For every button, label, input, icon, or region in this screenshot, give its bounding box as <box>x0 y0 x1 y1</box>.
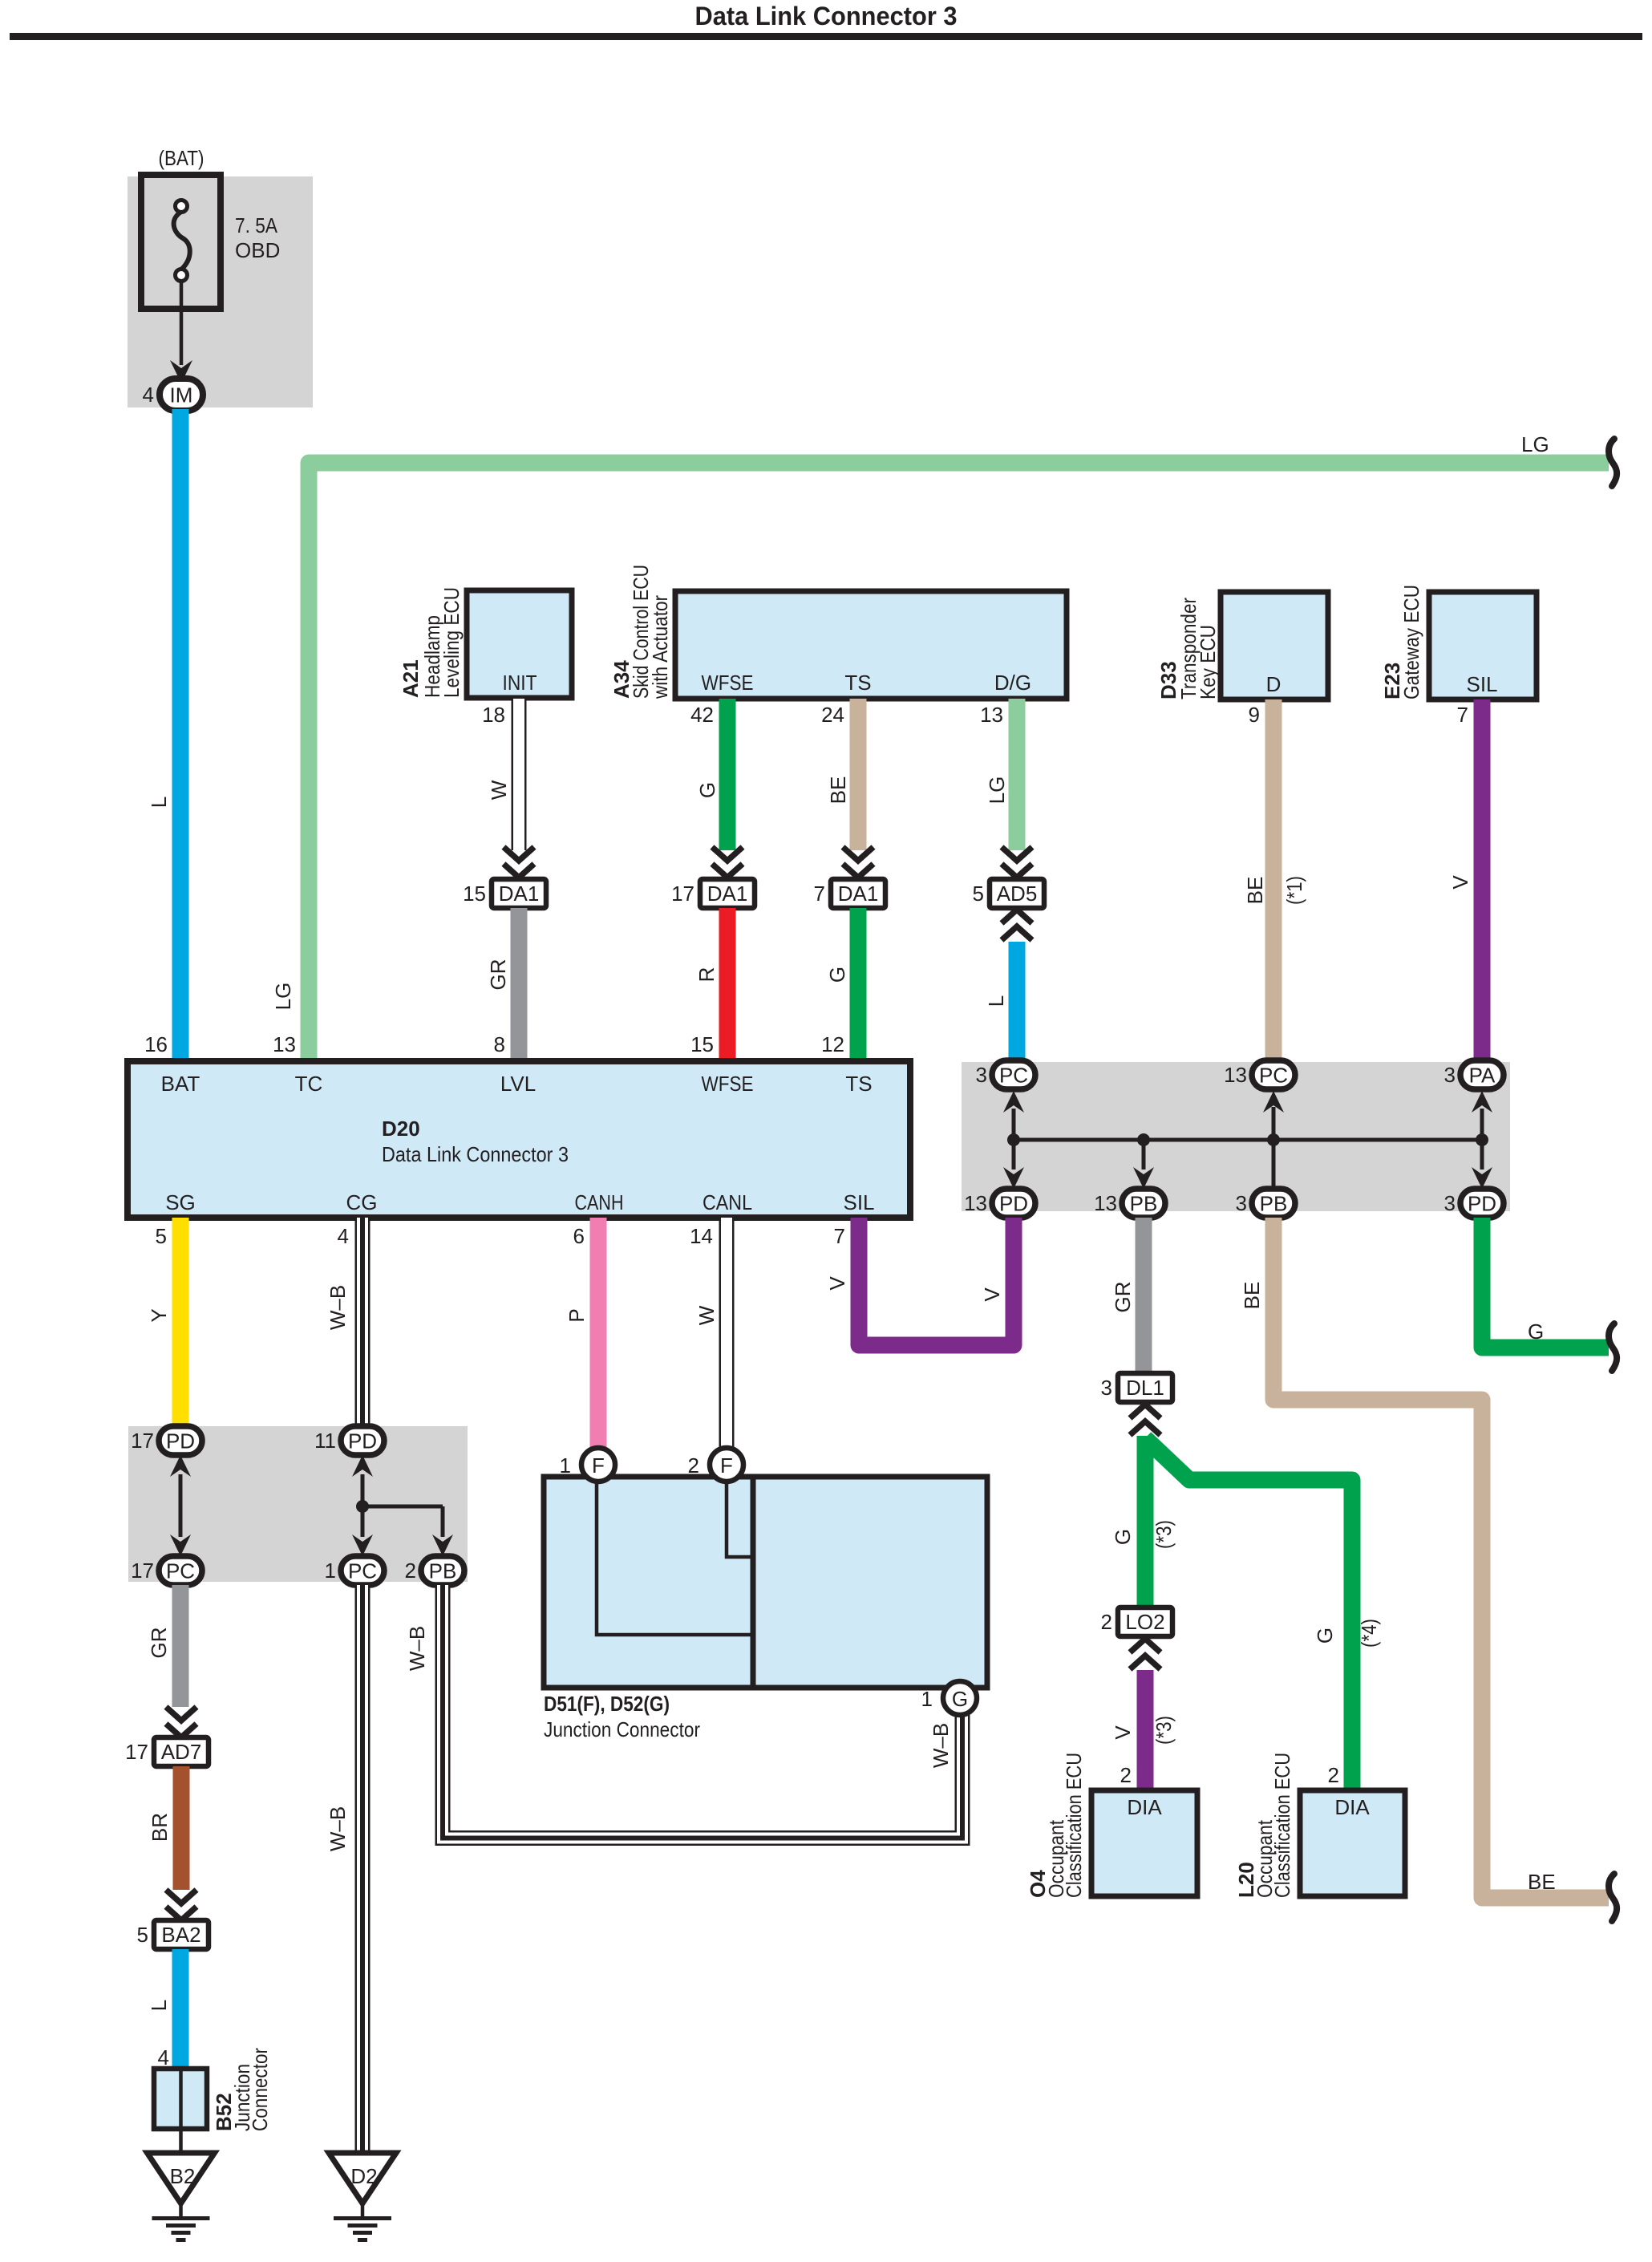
wire L (blue) fuse IM to D20 pin 16 <box>172 409 189 1061</box>
svg-text:G: G <box>1111 1529 1135 1545</box>
svg-text:G: G <box>825 967 849 983</box>
svg-text:16: 16 <box>144 1032 168 1056</box>
connector 5 AD5 <box>990 879 1044 908</box>
svg-text:7. 5A: 7. 5A <box>235 213 278 237</box>
cavity 13 PD <box>992 1189 1035 1218</box>
svg-text:11: 11 <box>314 1429 336 1453</box>
internal bus from F2 <box>727 1477 751 1557</box>
svg-text:Data Link Connector 3: Data Link Connector 3 <box>382 1142 569 1166</box>
svg-text:15: 15 <box>463 882 486 906</box>
svg-text:PC: PC <box>348 1559 377 1583</box>
arrows 17 PD to 17 PC <box>179 1474 183 1537</box>
svg-text:TS: TS <box>845 1072 872 1096</box>
svg-text:LVL: LVL <box>500 1072 536 1096</box>
svg-text:7: 7 <box>1457 703 1468 727</box>
wire V (violet) LO2 to O4 pin 2 <box>1137 1670 1154 1790</box>
svg-text:(*3): (*3) <box>1152 1520 1176 1549</box>
wire LG (light green) D20 pin 13 TC up and to right edge <box>309 463 1609 1061</box>
svg-text:BE: BE <box>1243 877 1267 905</box>
arrow out of DL1 (up) <box>1130 1405 1160 1418</box>
cavity 3 PC <box>992 1060 1035 1089</box>
ECU box A34 Skid Control ECU with Actuator <box>675 591 1067 699</box>
svg-text:13: 13 <box>980 703 1003 727</box>
svg-text:D51(F), D52(G): D51(F), D52(G) <box>544 1692 670 1716</box>
svg-text:Key ECU: Key ECU <box>1196 625 1220 699</box>
connector 17 AD7 <box>154 1737 209 1766</box>
svg-text:12: 12 <box>821 1032 844 1056</box>
svg-text:Classification ECU: Classification ECU <box>1270 1753 1294 1898</box>
stub and arrow at 13 PB <box>1142 1140 1146 1170</box>
ECU box L20 Occupant Classification ECU <box>1300 1790 1405 1896</box>
svg-text:DA1: DA1 <box>707 882 748 906</box>
cavity 2 PB <box>421 1556 464 1585</box>
svg-text:AD7: AD7 <box>161 1740 202 1764</box>
svg-text:PC: PC <box>1259 1064 1288 1088</box>
wire BE (beige) 3 PB to right edge <box>1273 1218 1609 1898</box>
wire V (violet) E23 pin 7 to 3 PA <box>1474 699 1491 1060</box>
svg-text:PB: PB <box>1260 1192 1288 1216</box>
svg-text:(*1): (*1) <box>1282 876 1306 905</box>
svg-text:BE: BE <box>1240 1282 1264 1310</box>
svg-text:B2: B2 <box>170 2164 196 2188</box>
arrow out of LO2 (up) <box>1130 1639 1160 1652</box>
svg-text:V: V <box>980 1287 1004 1302</box>
arrows and stubs at 3 PA / 3 PD <box>1480 1109 1484 1170</box>
svg-text:GR: GR <box>147 1628 171 1659</box>
cavity 1 PC <box>341 1556 384 1585</box>
cavity 17 PD <box>159 1426 202 1455</box>
svg-text:BA2: BA2 <box>161 1923 200 1947</box>
svg-text:2: 2 <box>1328 1763 1339 1787</box>
svg-text:3: 3 <box>1444 1063 1456 1087</box>
ground D2 <box>329 2153 396 2203</box>
svg-text:BE: BE <box>826 776 850 805</box>
wire BE (beige) D33 pin 9 to 13 PC <box>1265 699 1282 1060</box>
svg-text:V: V <box>825 1276 849 1291</box>
svg-text:R: R <box>694 967 719 983</box>
connector cavity 4 IM <box>160 379 203 411</box>
svg-text:LG: LG <box>985 776 1009 805</box>
svg-text:Data Link Connector 3: Data Link Connector 3 <box>695 2 958 30</box>
svg-text:D20: D20 <box>382 1117 420 1141</box>
svg-text:PC: PC <box>166 1559 195 1583</box>
connector box D20 Data Link Connector 3 <box>128 1061 910 1218</box>
wire R (red) DA1 to D20 pin 15 WFSE <box>719 908 736 1061</box>
cavity 11 PD <box>341 1426 384 1455</box>
wire W-B D20 pin 4 CG to 11 PD <box>355 1218 370 1426</box>
svg-text:17: 17 <box>131 1429 154 1453</box>
cavity 3 PA <box>1460 1060 1504 1089</box>
wire L (blue) BA2 to B52 pin 4 <box>172 1949 189 2069</box>
svg-text:D2: D2 <box>350 2164 377 2188</box>
svg-text:1: 1 <box>325 1559 336 1583</box>
connector 7 DA1 <box>831 879 885 908</box>
svg-text:F: F <box>720 1453 733 1478</box>
cavity 17 PC <box>159 1556 202 1585</box>
wire BR (brown) AD7 to BA2 <box>173 1766 190 1890</box>
svg-text:GR: GR <box>1111 1282 1135 1313</box>
svg-text:GR: GR <box>486 959 510 991</box>
svg-text:G: G <box>952 1687 968 1711</box>
svg-text:Gateway ECU: Gateway ECU <box>1399 585 1423 699</box>
svg-text:INIT: INIT <box>503 671 537 695</box>
svg-text:OBD: OBD <box>235 238 280 262</box>
wire G (green) A34 pin 42 WFSE to DA1 <box>719 699 736 850</box>
svg-text:CANL: CANL <box>703 1190 752 1214</box>
svg-text:BR: BR <box>148 1813 172 1842</box>
svg-text:IM: IM <box>170 383 193 407</box>
cavity 1 F <box>581 1448 615 1482</box>
svg-text:G: G <box>695 782 719 798</box>
break symbol LG <box>1609 439 1617 486</box>
svg-text:1: 1 <box>921 1687 933 1711</box>
svg-text:14: 14 <box>690 1224 713 1248</box>
arrows and stubs at 13 PC / 3 PB <box>1272 1107 1276 1189</box>
svg-text:W–B: W–B <box>326 1285 350 1330</box>
arrows and stubs at 3 PC / 13 PD <box>1012 1109 1016 1170</box>
cavity 13 PB <box>1122 1189 1165 1218</box>
wire V (violet) D20 pin 7 SIL to 13 PD <box>859 1218 1014 1345</box>
wire W (white) A21 pin 18 to DA1 <box>512 699 527 850</box>
svg-text:V: V <box>1111 1725 1135 1740</box>
svg-text:L: L <box>147 2000 171 2011</box>
svg-text:Classification ECU: Classification ECU <box>1062 1753 1086 1898</box>
internal bus from F1 <box>597 1477 751 1635</box>
wire G (green) DL1 to LO2 with branch to L20 <box>1137 1436 1154 1607</box>
svg-text:5: 5 <box>156 1224 167 1248</box>
connector 2 LO2 <box>1118 1607 1172 1636</box>
svg-text:Junction Connector: Junction Connector <box>544 1717 700 1741</box>
wire BE (beige) A34 pin 24 TS to DA1 <box>850 699 867 850</box>
svg-text:3: 3 <box>1236 1191 1247 1215</box>
svg-text:SIL: SIL <box>1466 672 1497 696</box>
svg-text:LG: LG <box>1521 432 1549 456</box>
junction connector B52 <box>154 2069 207 2129</box>
connector 15 DA1 <box>492 879 546 908</box>
svg-text:5: 5 <box>137 1923 148 1947</box>
svg-text:(*4): (*4) <box>1357 1619 1381 1648</box>
svg-text:17: 17 <box>131 1559 154 1583</box>
svg-text:17: 17 <box>125 1740 148 1764</box>
svg-text:W–B: W–B <box>929 1723 953 1768</box>
svg-text:(*3): (*3) <box>1152 1716 1176 1745</box>
arrow into IM <box>170 360 192 383</box>
svg-text:F: F <box>592 1453 605 1478</box>
svg-text:Y: Y <box>147 1308 171 1322</box>
svg-text:4: 4 <box>143 383 154 407</box>
wire P (pink) D20 pin 6 CANH to junction connector F1 <box>590 1218 607 1448</box>
svg-text:PD: PD <box>348 1429 377 1453</box>
ECU box E23 Gateway ECU <box>1429 592 1537 699</box>
svg-text:DIA: DIA <box>1334 1795 1370 1819</box>
wire Y (yellow) D20 pin 5 SG to 17 PD <box>172 1218 189 1426</box>
svg-text:AD5: AD5 <box>997 882 1038 906</box>
svg-text:(BAT): (BAT) <box>159 146 204 170</box>
svg-text:PD: PD <box>999 1192 1028 1216</box>
svg-text:Connector: Connector <box>248 2048 272 2131</box>
harness junction shading (right) <box>962 1062 1510 1211</box>
arrow into AD5 <box>1002 847 1032 861</box>
svg-text:7: 7 <box>834 1224 845 1248</box>
svg-text:DA1: DA1 <box>499 882 540 906</box>
cavity 3 PD <box>1460 1189 1504 1218</box>
fuse 7.5A OBD body <box>141 175 221 309</box>
svg-text:15: 15 <box>690 1032 714 1056</box>
svg-text:PB: PB <box>1130 1192 1158 1216</box>
svg-text:24: 24 <box>821 703 844 727</box>
connector 17 DA1 <box>700 879 755 908</box>
connector 5 BA2 <box>154 1920 209 1949</box>
svg-text:SG: SG <box>165 1190 196 1214</box>
fuse block shading <box>128 176 313 407</box>
svg-text:L: L <box>984 995 1008 1007</box>
svg-text:BAT: BAT <box>161 1072 200 1096</box>
wire L (blue) AD5 to 3 PC <box>1009 942 1026 1060</box>
arrow into DA1 (TS) <box>843 847 873 861</box>
wire GR (gray) 17 PC to AD7 <box>172 1585 189 1707</box>
cavity 2 F <box>710 1448 743 1482</box>
wire from fuse to connector IM <box>180 281 184 365</box>
svg-text:CG: CG <box>346 1190 378 1214</box>
wire G (green) DA1 to D20 pin 12 TS <box>850 908 867 1061</box>
ECU box D33 Transponder Key ECU <box>1221 592 1328 699</box>
svg-text:2: 2 <box>688 1453 699 1478</box>
svg-text:WFSE: WFSE <box>702 671 754 695</box>
wire GR (gray) DA1 to D20 pin 8 LVL <box>511 908 528 1061</box>
svg-text:DIA: DIA <box>1127 1795 1162 1819</box>
ground B2 <box>148 2153 215 2203</box>
svg-text:2: 2 <box>1120 1763 1132 1787</box>
svg-text:PD: PD <box>166 1429 195 1453</box>
svg-text:1: 1 <box>560 1453 571 1478</box>
svg-text:18: 18 <box>482 703 505 727</box>
svg-text:5: 5 <box>973 882 984 906</box>
connector 3 DL1 <box>1118 1373 1172 1402</box>
svg-text:2: 2 <box>405 1559 416 1583</box>
svg-text:PA: PA <box>1469 1064 1496 1088</box>
svg-text:V: V <box>1448 875 1472 890</box>
svg-text:TC: TC <box>295 1072 323 1096</box>
svg-text:L: L <box>147 797 171 808</box>
harness junction shading (left) <box>128 1426 468 1582</box>
wire W-B 1 PC to ground D2 <box>355 1585 370 2153</box>
svg-text:G: G <box>1528 1319 1544 1344</box>
svg-text:D: D <box>1266 672 1282 696</box>
svg-text:TS: TS <box>844 671 871 695</box>
wire W (white) D20 pin 14 CANL to junction connector F2 <box>719 1218 735 1448</box>
title rule <box>10 33 1642 40</box>
svg-text:7: 7 <box>814 882 825 906</box>
svg-text:2: 2 <box>1101 1610 1112 1634</box>
svg-text:13: 13 <box>1094 1191 1117 1215</box>
svg-text:A21: A21 <box>399 659 423 698</box>
svg-text:4: 4 <box>338 1224 349 1248</box>
arrows 11 PD to 1 PC and 2 PB <box>361 1474 365 1537</box>
svg-text:LO2: LO2 <box>1125 1610 1164 1634</box>
svg-text:17: 17 <box>671 882 694 906</box>
svg-text:3: 3 <box>1444 1191 1456 1215</box>
svg-text:DL1: DL1 <box>1126 1376 1164 1400</box>
svg-text:PD: PD <box>1468 1192 1496 1216</box>
cavity 1 G <box>943 1681 977 1715</box>
junction connector box D51(F) D52(G) <box>544 1477 987 1688</box>
svg-text:9: 9 <box>1249 703 1260 727</box>
wire G (green) 3 PD to right edge <box>1482 1218 1609 1348</box>
svg-text:SIL: SIL <box>843 1190 874 1214</box>
arrow into DA1 (WFSE) <box>712 847 743 861</box>
junction dots <box>1007 1133 1020 1146</box>
cavity 13 PC <box>1252 1060 1295 1089</box>
svg-text:3: 3 <box>1101 1376 1112 1400</box>
bus line <box>1014 1138 1482 1142</box>
svg-text:4: 4 <box>158 2045 169 2069</box>
svg-text:WFSE: WFSE <box>702 1072 754 1096</box>
svg-text:13: 13 <box>1224 1063 1247 1087</box>
wire W-B 2 PB to junction connector G1 <box>443 1585 962 1838</box>
cavity 3 PB <box>1252 1189 1295 1218</box>
svg-text:W: W <box>694 1305 719 1325</box>
svg-text:BE: BE <box>1528 1870 1556 1894</box>
svg-text:13: 13 <box>273 1032 296 1056</box>
svg-text:PB: PB <box>429 1559 457 1583</box>
arrow into BA2 <box>166 1890 196 1903</box>
svg-text:8: 8 <box>494 1032 505 1056</box>
junction dot 11 PD branch <box>356 1500 369 1513</box>
fuse element symbol <box>176 201 188 213</box>
svg-text:G: G <box>1313 1628 1337 1644</box>
svg-text:PC: PC <box>999 1064 1028 1088</box>
wire B52 to ground B2 <box>179 2129 183 2153</box>
svg-text:W: W <box>487 780 511 800</box>
svg-text:W–B: W–B <box>405 1626 429 1671</box>
svg-text:Leveling ECU: Leveling ECU <box>439 587 464 698</box>
svg-text:DA1: DA1 <box>838 882 879 906</box>
svg-text:CANH: CANH <box>575 1190 624 1214</box>
svg-text:D/G: D/G <box>994 671 1031 695</box>
arrow into AD7 <box>166 1707 196 1721</box>
svg-text:42: 42 <box>690 703 714 727</box>
ECU box O4 Occupant Classification ECU <box>1091 1790 1197 1896</box>
wire GR (gray) 13 PB to DL1 <box>1136 1218 1152 1373</box>
arrow into DA1 (from A21) <box>504 847 534 861</box>
svg-text:with Actuator: with Actuator <box>648 595 672 699</box>
svg-text:W–B: W–B <box>326 1806 350 1851</box>
wire LG (light green) A34 pin 13 D/G to AD5 <box>1009 699 1026 850</box>
svg-text:3: 3 <box>976 1063 987 1087</box>
svg-text:6: 6 <box>573 1224 585 1248</box>
break symbol G <box>1609 1324 1617 1371</box>
svg-text:13: 13 <box>964 1191 987 1215</box>
arrow out of AD5 (up) <box>1002 910 1032 923</box>
svg-text:P: P <box>565 1308 589 1322</box>
ECU box A21 Headlamp Leveling ECU <box>467 590 572 698</box>
break symbol BE <box>1609 1874 1617 1921</box>
svg-text:LG: LG <box>271 983 295 1011</box>
